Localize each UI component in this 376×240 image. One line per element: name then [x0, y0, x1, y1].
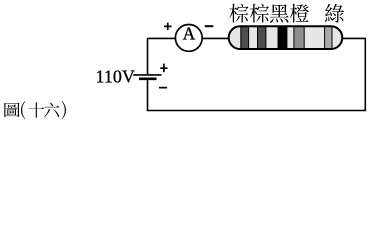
svg-text:110V: 110V: [96, 66, 135, 86]
svg-text:A: A: [183, 24, 196, 44]
